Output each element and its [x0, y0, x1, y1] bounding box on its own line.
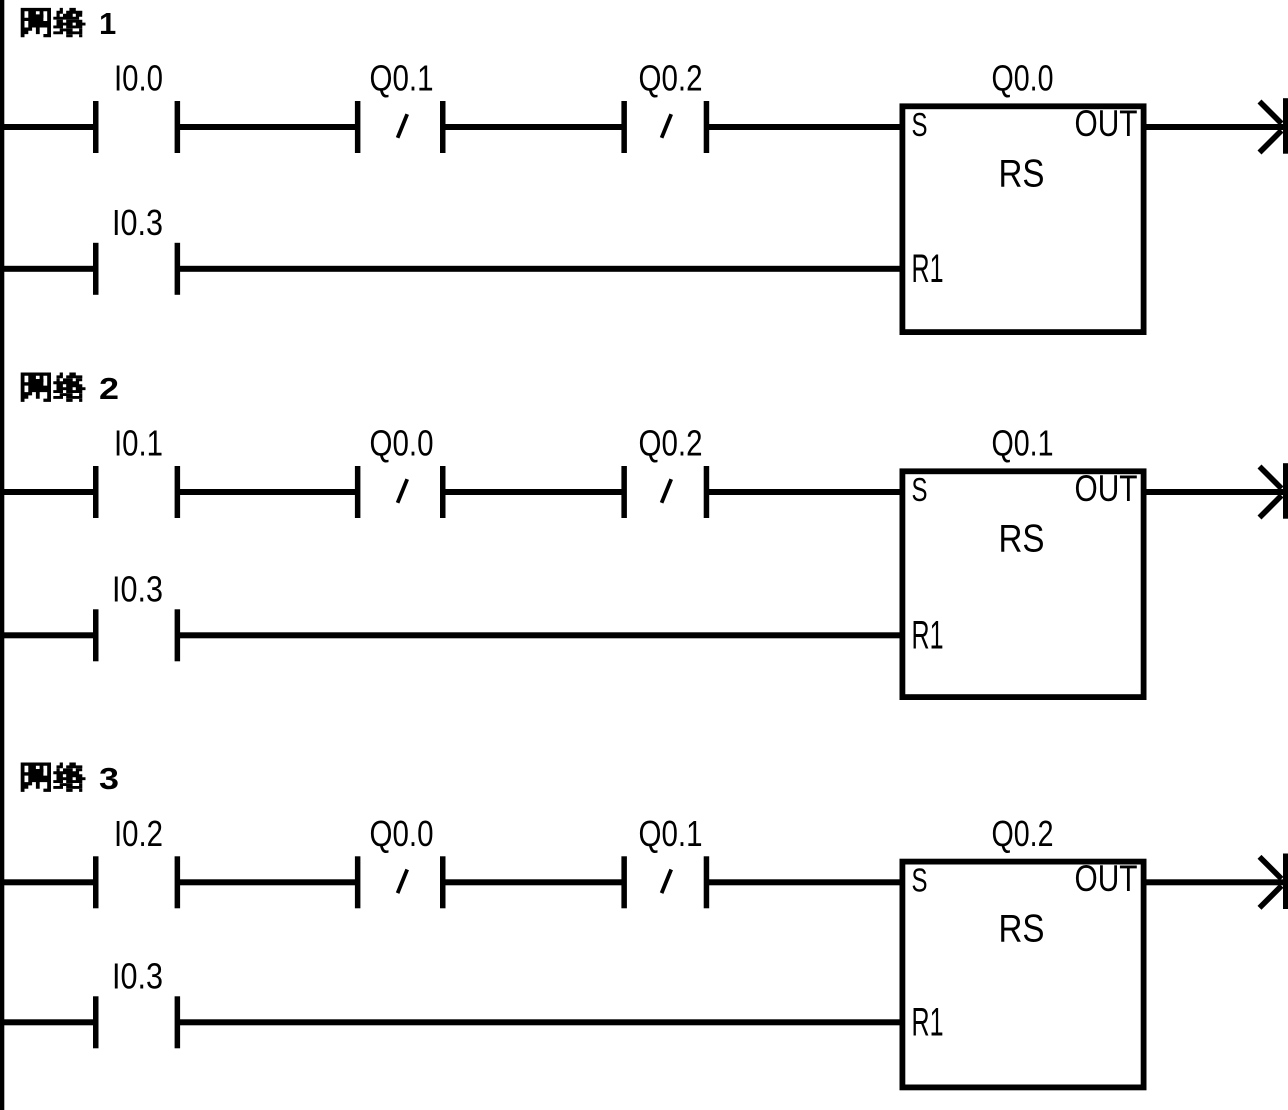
NC contact Q0.0 [355, 856, 446, 908]
svg-text:R1: R1 [912, 247, 944, 291]
svg-text:RS: RS [999, 152, 1045, 195]
svg-text:I0.1: I0.1 [114, 423, 163, 464]
NO contact I0.2 [93, 856, 180, 908]
network 3 title 网络 3 [21, 761, 119, 796]
RS bistable function block Q0.0 [902, 106, 1143, 332]
svg-text:Q0.1: Q0.1 [992, 423, 1054, 464]
wire contact Q0.1 to RS block S pin [708, 879, 902, 885]
svg-text:OUT: OUT [1075, 468, 1138, 509]
wire OUT pin to right continuation [1145, 489, 1284, 495]
svg-text:I0.0: I0.0 [114, 58, 163, 99]
wire contact Q0.0 to contact Q0.2 [444, 489, 623, 495]
svg-text:OUT: OUT [1075, 858, 1138, 899]
wire rail to contact I0.3 [0, 1019, 95, 1025]
left power rail [0, 0, 4, 1110]
NO contact I0.0 [93, 101, 180, 153]
svg-text:Q0.2: Q0.2 [639, 58, 703, 99]
svg-text:I0.2: I0.2 [114, 813, 163, 854]
output continuation arrow Q0.2 [1260, 854, 1288, 910]
wire OUT pin to right continuation [1145, 124, 1284, 130]
network 2 title 网络 2 [21, 371, 119, 406]
output continuation arrow Q0.0 [1260, 98, 1288, 154]
output continuation arrow Q0.1 [1260, 463, 1288, 519]
svg-text:2: 2 [99, 371, 119, 406]
svg-text:Q0.1: Q0.1 [370, 58, 434, 99]
network 1 title 网络 1 [21, 6, 117, 41]
NO contact I0.1 [93, 466, 180, 518]
wire contact I0.3 to RS block R1 pin [179, 266, 902, 272]
wire contact I0.1 to contact Q0.0 [179, 489, 357, 495]
wire contact I0.2 to contact Q0.0 [179, 879, 357, 885]
wire rail to contact I0.0 [0, 124, 95, 130]
NC contact Q0.2 [621, 101, 709, 153]
svg-text:Q0.0: Q0.0 [370, 813, 434, 854]
svg-text:Q0.2: Q0.2 [992, 813, 1054, 854]
NO contact I0.3 [93, 996, 180, 1048]
svg-text:R1: R1 [912, 614, 944, 658]
wire contact I0.3 to RS block R1 pin [179, 1019, 902, 1025]
svg-text:RS: RS [999, 908, 1045, 951]
svg-text:S: S [912, 106, 928, 143]
wire contact I0.0 to contact Q0.1 [179, 124, 357, 130]
wire rail to contact I0.2 [0, 879, 95, 885]
RS bistable function block Q0.2 [902, 862, 1143, 1088]
NC contact Q0.1 [621, 856, 709, 908]
wire contact Q0.0 to contact Q0.1 [444, 879, 623, 885]
svg-text:Q0.1: Q0.1 [639, 813, 703, 854]
svg-text:S: S [912, 471, 928, 508]
NC contact Q0.2 [621, 466, 709, 518]
svg-text:I0.3: I0.3 [112, 568, 163, 609]
svg-text:3: 3 [99, 761, 119, 796]
NO contact I0.3 [93, 243, 180, 295]
svg-text:Q0.0: Q0.0 [370, 423, 434, 464]
svg-text:RS: RS [999, 517, 1045, 560]
wire rail to contact I0.3 [0, 266, 95, 272]
wire contact I0.3 to RS block R1 pin [179, 632, 902, 638]
NC contact Q0.1 [355, 101, 446, 153]
svg-text:Q0.2: Q0.2 [639, 423, 703, 464]
wire contact Q0.2 to RS block S pin [708, 124, 902, 130]
svg-text:R1: R1 [912, 1001, 944, 1045]
wire contact Q0.2 to RS block S pin [708, 489, 902, 495]
NC contact Q0.0 [355, 466, 446, 518]
svg-text:1: 1 [99, 6, 116, 41]
wire rail to contact I0.3 [0, 632, 95, 638]
RS bistable function block Q0.1 [902, 471, 1143, 697]
wire rail to contact I0.1 [0, 489, 95, 495]
svg-text:I0.3: I0.3 [112, 955, 163, 996]
NO contact I0.3 [93, 609, 180, 661]
svg-text:Q0.0: Q0.0 [992, 58, 1054, 99]
wire contact Q0.1 to contact Q0.2 [444, 124, 623, 130]
svg-text:I0.3: I0.3 [112, 202, 163, 243]
svg-text:OUT: OUT [1075, 103, 1138, 144]
svg-text:S: S [912, 861, 928, 898]
wire OUT pin to right continuation [1145, 879, 1284, 885]
